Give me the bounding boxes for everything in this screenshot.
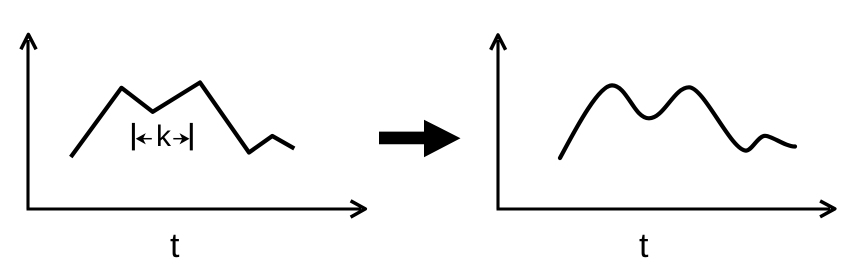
svg-text:k: k bbox=[156, 120, 172, 153]
left graph x-axis arrowhead bbox=[351, 201, 366, 217]
left jagged signal curve bbox=[71, 83, 294, 158]
right graph y-axis bbox=[496, 40, 499, 209]
right graph x-axis arrowhead bbox=[820, 201, 835, 217]
left graph x-axis bbox=[27, 207, 362, 210]
window marker left bar bbox=[132, 123, 135, 150]
window marker right arrow shaft bbox=[173, 138, 183, 140]
big transform arrow bbox=[379, 120, 461, 158]
svg-text:t: t bbox=[639, 227, 649, 265]
left graph y-axis arrowhead bbox=[21, 34, 36, 49]
window marker left arrow shaft bbox=[142, 138, 152, 140]
window marker left arrowhead bbox=[136, 133, 146, 144]
right graph y-axis arrowhead bbox=[491, 35, 506, 50]
window marker right arrowhead bbox=[180, 133, 190, 144]
left graph y-axis bbox=[26, 40, 29, 209]
right smoothed signal curve bbox=[560, 85, 795, 158]
window marker right bar bbox=[190, 123, 193, 150]
svg-text:t: t bbox=[170, 227, 180, 265]
right graph x-axis bbox=[497, 207, 831, 210]
